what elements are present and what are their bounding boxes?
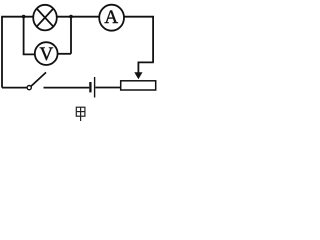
wire jog to rheostat slider	[138, 62, 153, 72]
switch S1 pivot	[27, 86, 31, 90]
wire battery to rheostat	[95, 87, 120, 89]
wire voltmeter branch right horizontal	[58, 53, 71, 55]
battery negative plate (short)	[89, 82, 91, 92]
wire right vertical	[152, 17, 154, 63]
voltmeter V1	[35, 42, 58, 65]
wire switch contact to battery	[44, 87, 90, 89]
wire left vertical	[1, 17, 3, 88]
wire voltmeter branch right vertical	[70, 17, 72, 54]
lamp L1	[33, 5, 57, 31]
rheostat slider arrowhead	[134, 72, 142, 79]
label jia	[76, 107, 85, 121]
ammeter A1	[99, 5, 124, 31]
svg-text:A: A	[104, 7, 118, 28]
wire top horizontal	[1, 16, 154, 18]
node junction right	[69, 15, 73, 19]
wire voltmeter branch left	[24, 17, 36, 55]
battery positive plate (long)	[94, 77, 96, 98]
rheostat R1 body	[121, 81, 156, 90]
wire bottom-left to switch pivot	[2, 87, 27, 89]
node junction left	[22, 15, 26, 19]
svg-text:V: V	[40, 44, 54, 65]
switch S1 blade	[31, 72, 46, 86]
